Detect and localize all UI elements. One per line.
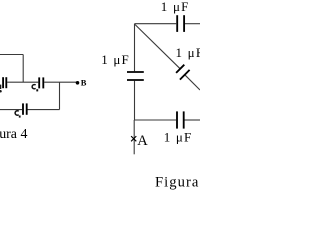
svg-text:1 μF: 1 μF (161, 0, 190, 14)
svg-text:Figura 4: Figura 4 (0, 127, 27, 142)
svg-text:1 μF: 1 μF (164, 129, 193, 144)
svg-text:Figura 5: Figura 5 (155, 174, 200, 190)
svg-text:1 μF: 1 μF (101, 52, 130, 67)
svg-text:B: B (81, 78, 87, 88)
svg-text:1 μF: 1 μF (176, 45, 201, 60)
svg-text:A: A (137, 133, 148, 149)
